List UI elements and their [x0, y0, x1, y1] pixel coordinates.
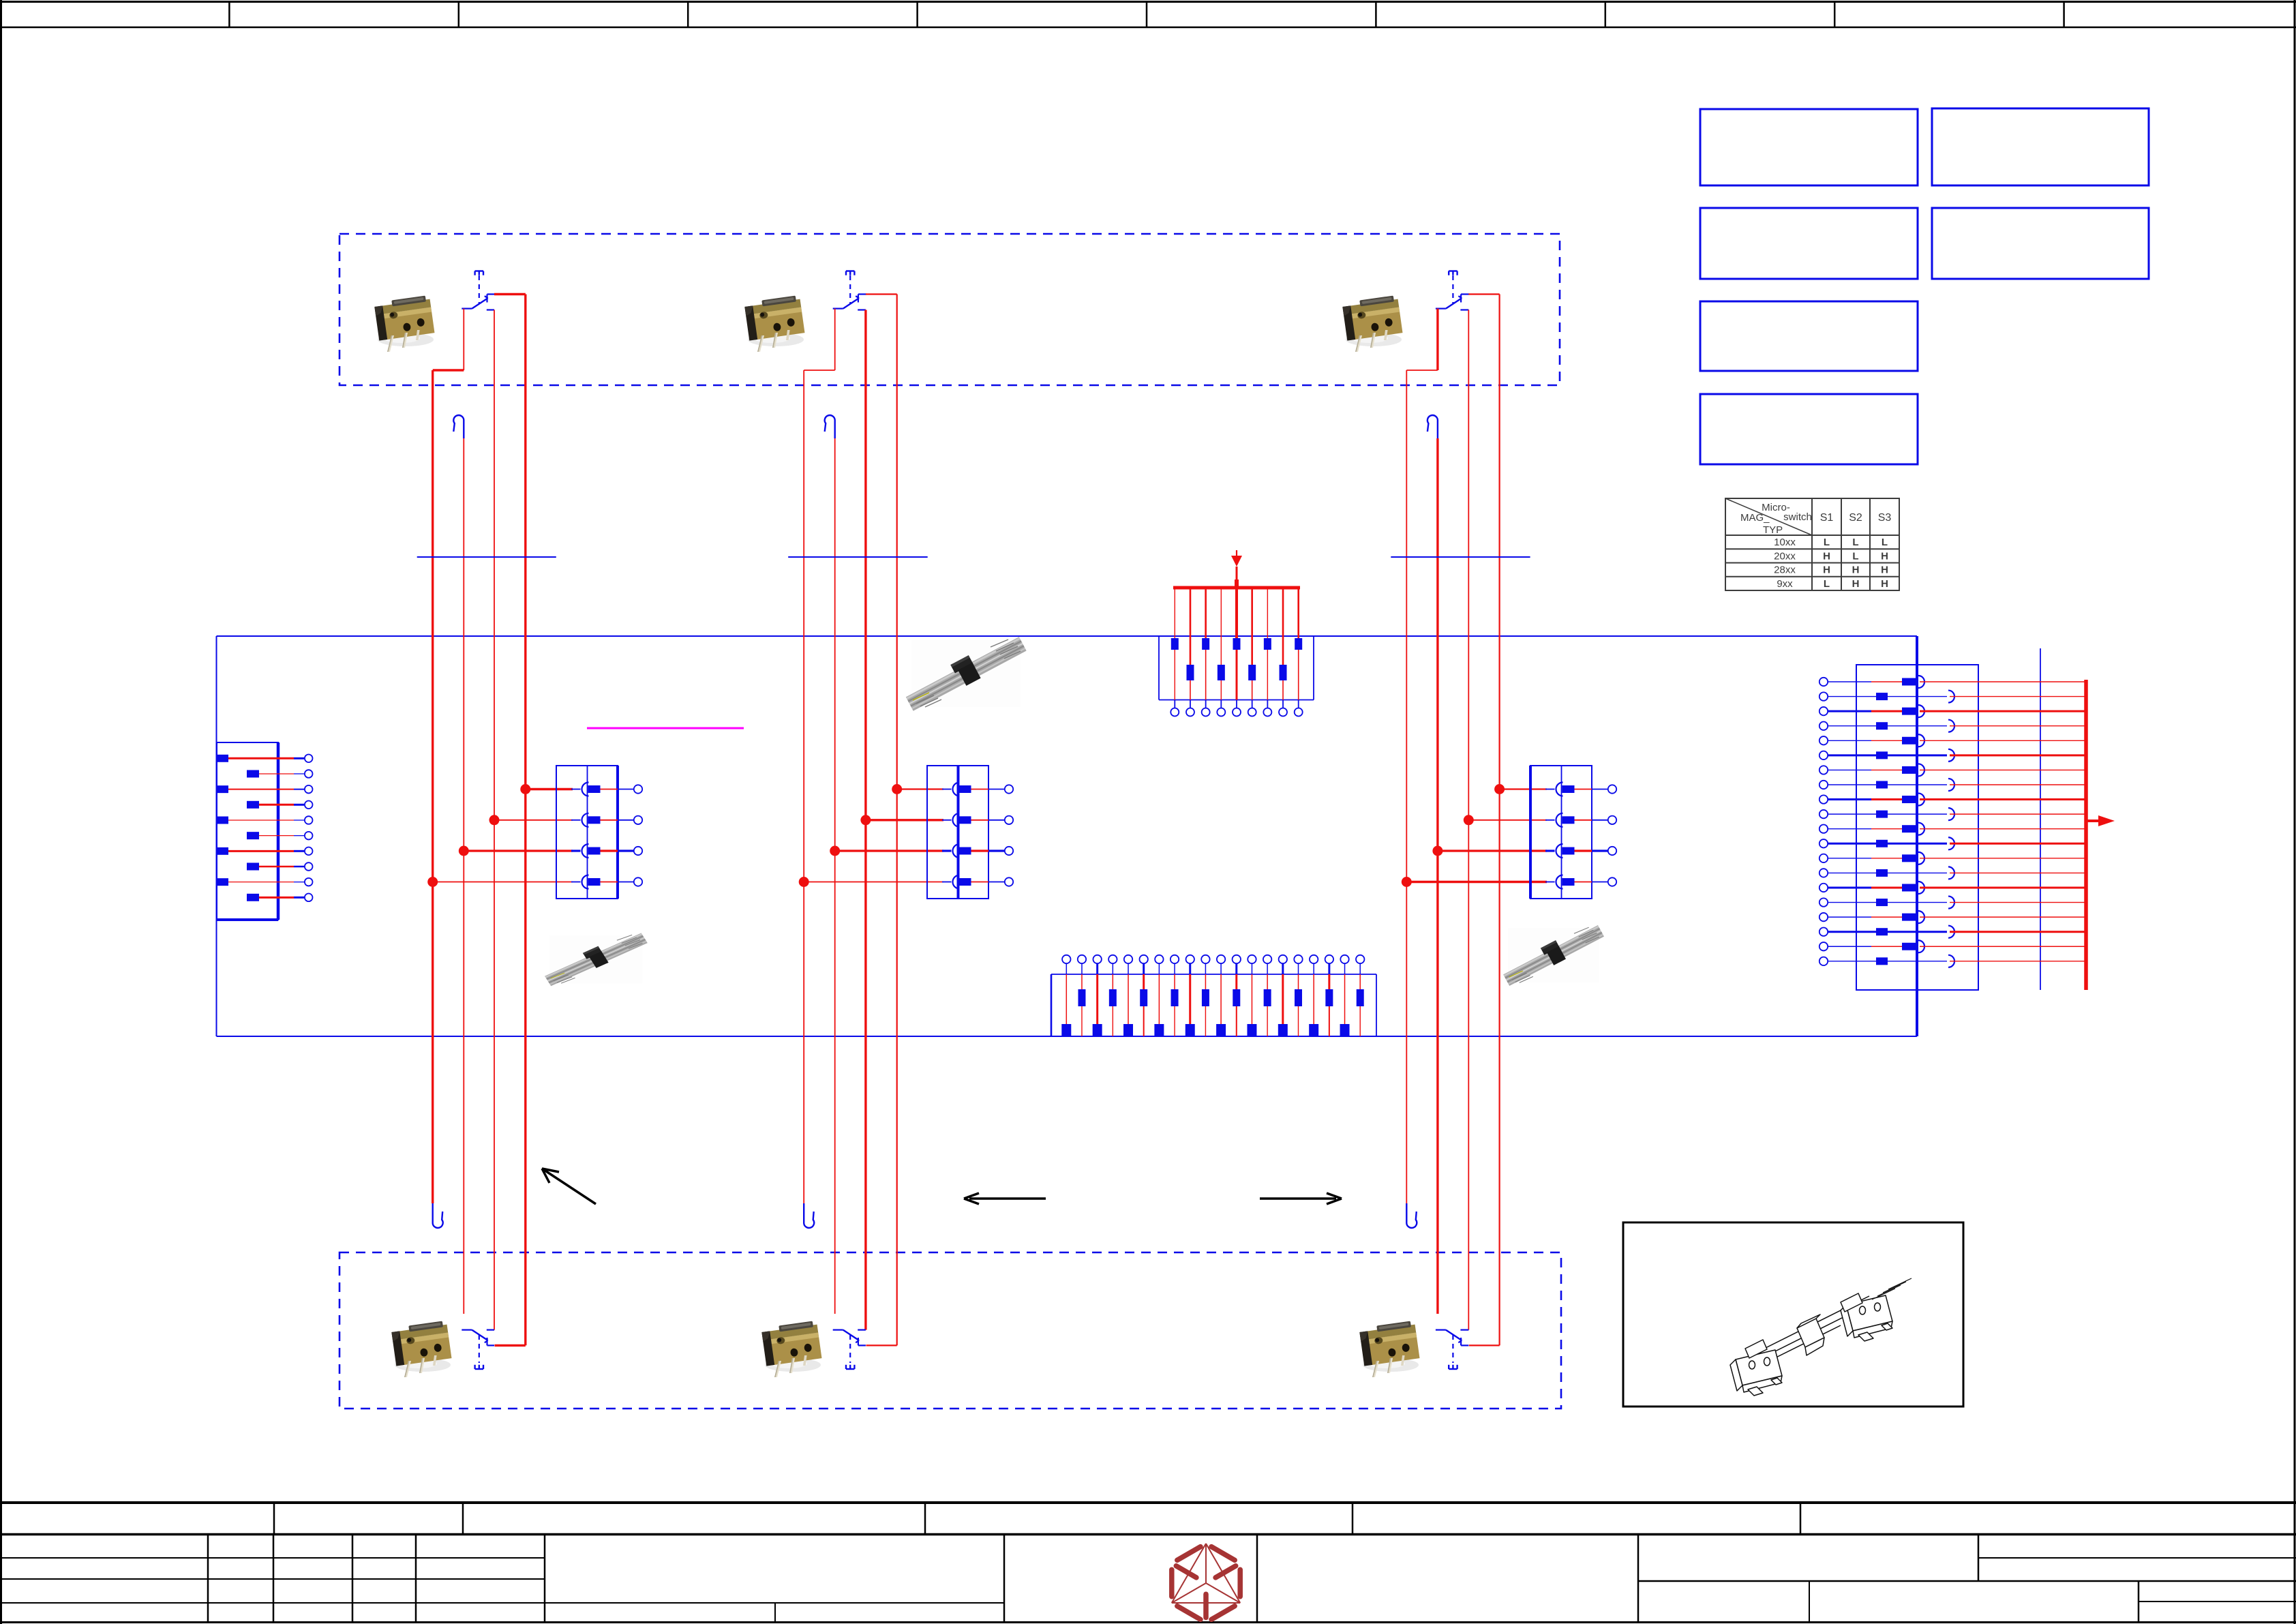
- svg-text:S2: S2: [1849, 512, 1862, 524]
- svg-text:S1: S1: [1820, 512, 1834, 524]
- svg-text:L: L: [1852, 537, 1858, 548]
- svg-text:L: L: [1882, 537, 1888, 548]
- svg-text:H: H: [1881, 578, 1888, 590]
- svg-text:H: H: [1881, 565, 1888, 576]
- svg-text:TYP: TYP: [1763, 524, 1783, 536]
- svg-text:S3: S3: [1878, 512, 1892, 524]
- svg-text:H: H: [1852, 565, 1860, 576]
- svg-text:L: L: [1852, 550, 1858, 562]
- svg-text:H: H: [1823, 565, 1830, 576]
- svg-text:28xx: 28xx: [1774, 565, 1796, 576]
- svg-text:9xx: 9xx: [1777, 578, 1793, 590]
- svg-text:switch: switch: [1783, 511, 1812, 523]
- svg-text:20xx: 20xx: [1774, 550, 1796, 562]
- svg-text:H: H: [1881, 550, 1888, 562]
- svg-text:L: L: [1824, 578, 1830, 590]
- svg-text:H: H: [1823, 550, 1830, 562]
- svg-text:H: H: [1852, 578, 1860, 590]
- svg-text:MAG_: MAG_: [1740, 512, 1770, 524]
- svg-text:L: L: [1824, 537, 1830, 548]
- svg-text:10xx: 10xx: [1774, 537, 1796, 548]
